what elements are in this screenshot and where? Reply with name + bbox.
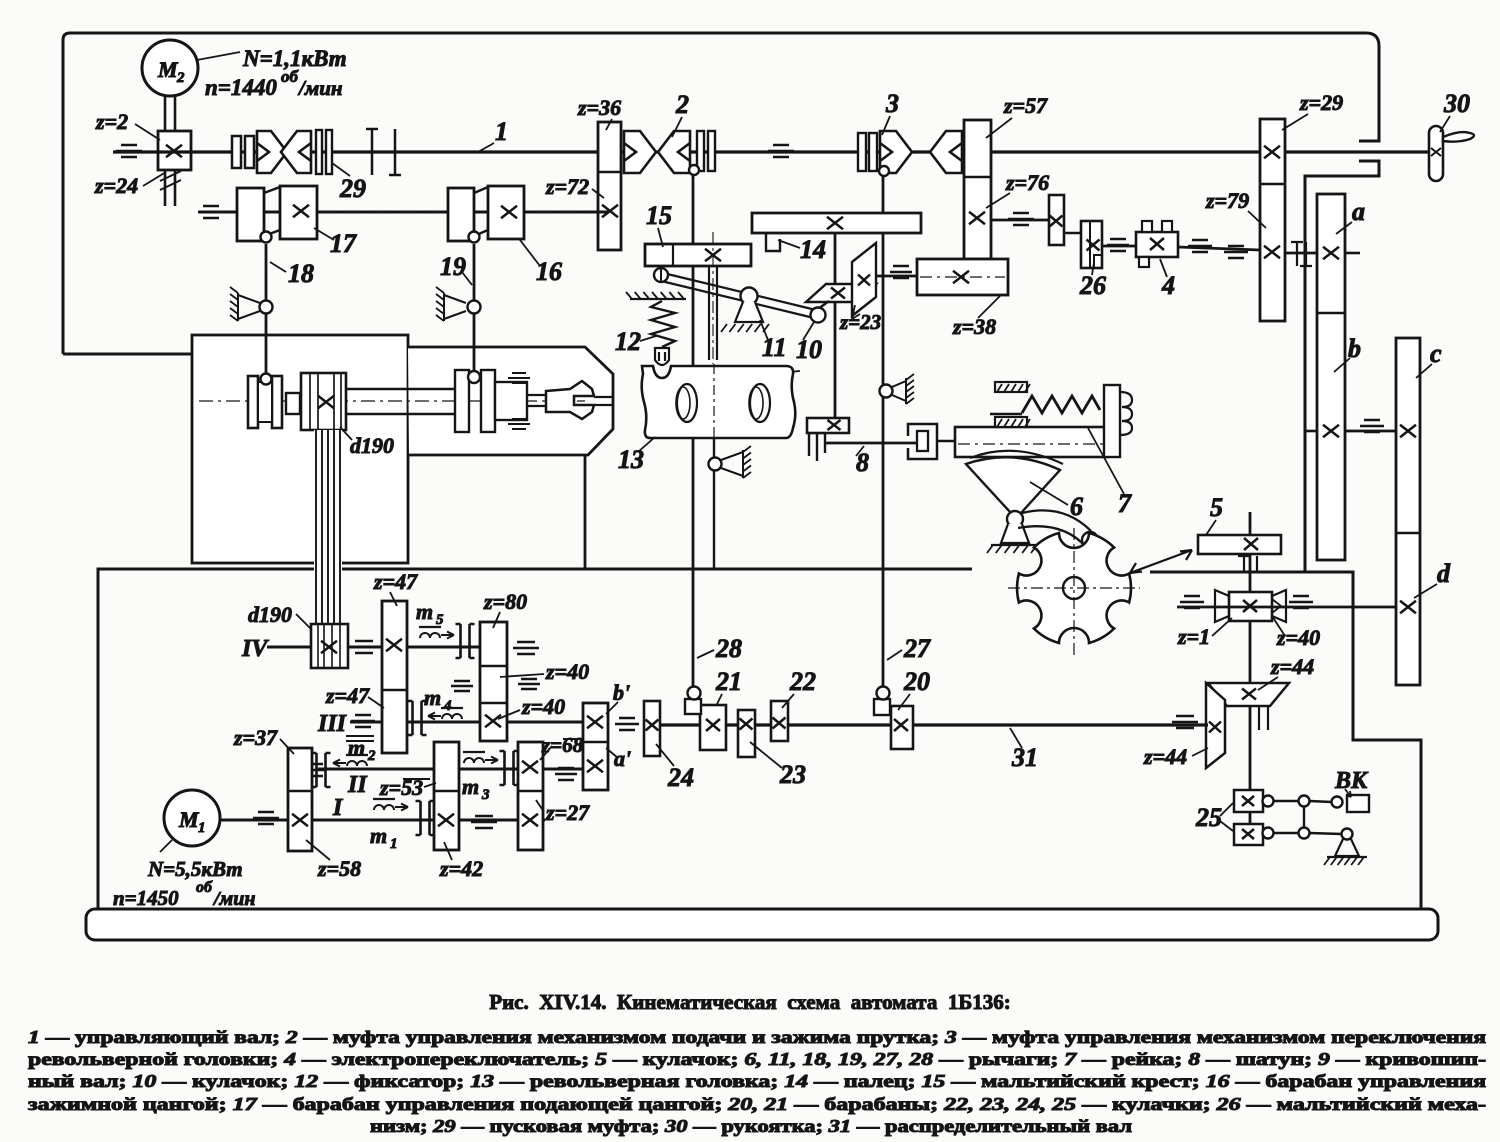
svg-text:m: m xyxy=(348,735,365,760)
fixator 12 hatched support xyxy=(630,298,686,300)
svg-text:7: 7 xyxy=(1118,489,1132,518)
coupling z=79 to gear a xyxy=(1285,252,1317,255)
svg-text:z=37: z=37 xyxy=(233,725,278,750)
feed collet drum flanges xyxy=(248,376,258,428)
svg-text:1: 1 xyxy=(198,820,206,836)
svg-text:25: 25 xyxy=(1195,803,1222,832)
slider of crank mechanism xyxy=(908,424,937,459)
rack 7 end plate xyxy=(1104,385,1120,457)
drum 21 follower box xyxy=(685,699,701,714)
spindle headstock box xyxy=(192,335,408,563)
clamping collet body xyxy=(495,382,527,420)
lever 10 link stub xyxy=(818,301,829,309)
svg-text:z=40: z=40 xyxy=(521,694,565,719)
maltese mechanism 26 cross xyxy=(1081,221,1102,268)
electro switch 4 body xyxy=(1136,232,1178,257)
svg-text:z=79: z=79 xyxy=(1205,188,1249,213)
svg-text:z=36: z=36 xyxy=(577,95,621,120)
drum 20 follower box xyxy=(874,699,890,715)
gear block z=36 / z=72 xyxy=(598,122,621,250)
feeding collet drum 17 xyxy=(237,188,264,241)
svg-text:27: 27 xyxy=(903,634,931,663)
crank 9 pin xyxy=(809,433,817,461)
svg-text:z=76: z=76 xyxy=(1005,170,1049,195)
spring retainer curls xyxy=(1120,392,1132,435)
svg-text:26: 26 xyxy=(1079,271,1106,300)
gripper slot channel xyxy=(594,397,612,405)
cam 23 xyxy=(738,710,755,757)
svg-text:d: d xyxy=(1437,559,1451,588)
rack spring xyxy=(1022,396,1100,413)
svg-text:a: a xyxy=(1352,197,1365,226)
clutch m3 plates xyxy=(500,751,519,785)
drum z=38 xyxy=(917,259,1008,295)
svg-text:/мин: /мин xyxy=(212,888,255,910)
svg-text:z=2: z=2 xyxy=(95,109,128,134)
drum 20 xyxy=(891,706,913,749)
svg-text:17: 17 xyxy=(330,229,357,258)
shaft z=76 to gear 26 xyxy=(991,219,1048,222)
feed clutch 2 left half xyxy=(624,131,656,173)
svg-text:z=42: z=42 xyxy=(439,856,483,881)
clutch 2 coupling discs xyxy=(697,131,704,171)
camshaft housing step outline right xyxy=(1305,572,1421,909)
svg-text:2: 2 xyxy=(367,748,376,764)
feed clutch 2 right half xyxy=(658,131,690,173)
svg-text:Рис. XIV.14. Кинематическая: Рис. XIV.14. Кинематическая схема автома… xyxy=(489,990,1010,1014)
lever 18 pivot xyxy=(260,301,273,314)
svg-text:n=1440: n=1440 xyxy=(205,75,277,100)
leader M1 to label xyxy=(160,840,172,852)
svg-text:п=1450: п=1450 xyxy=(113,886,179,910)
double arrow wheel to cam 5 xyxy=(1130,550,1192,573)
crank 9 web xyxy=(807,418,849,433)
gear block z=53 / z=42 xyxy=(434,742,459,850)
motor M2 xyxy=(142,40,198,96)
gear block z=29 / z=79 xyxy=(1260,119,1285,321)
shaft II xyxy=(318,768,600,771)
gear block z=47 double xyxy=(382,601,407,753)
svg-text:низм; 29 — пусковая муфта; 3: низм; 29 — пусковая муфта; 30 — рукоятка… xyxy=(370,1116,1132,1136)
svg-text:N=5,5кВт: N=5,5кВт xyxy=(147,857,243,881)
svg-text:3: 3 xyxy=(481,787,490,803)
worm shaft lower stub with hatch xyxy=(165,170,175,206)
svg-text:10: 10 xyxy=(796,335,822,364)
svg-text:III: III xyxy=(317,711,348,737)
bevel gear z=44 top xyxy=(1208,683,1289,706)
svg-text:20: 20 xyxy=(903,667,930,696)
worm z=2 gearbox xyxy=(158,131,191,170)
svg-text:c: c xyxy=(1430,339,1442,368)
cams 25 upper xyxy=(1234,790,1263,812)
lever 11 link xyxy=(657,272,816,318)
clutch 2 shifter ring pin xyxy=(689,165,699,175)
camshaft 31 xyxy=(660,723,1208,726)
shaft 1 coupling bars after clutch 29 xyxy=(366,129,401,175)
svg-text:15: 15 xyxy=(646,201,672,230)
svg-text:М: М xyxy=(157,57,179,82)
svg-text:z=58: z=58 xyxy=(317,856,361,881)
svg-text:IV: IV xyxy=(241,636,269,662)
handle 30 grip xyxy=(1443,132,1474,142)
gear block c / d xyxy=(1396,338,1420,685)
collet control shaft xyxy=(198,211,608,214)
svg-text:3: 3 xyxy=(885,89,899,118)
lever 6 pivot support xyxy=(1001,524,1029,543)
svg-text:z=23: z=23 xyxy=(839,310,881,334)
svg-text:m: m xyxy=(462,774,479,799)
svg-text:28: 28 xyxy=(715,634,742,663)
drum 17 shifter pin xyxy=(261,232,272,243)
svg-text:ный вал; 10 — кулачок; 12 —: ный вал; 10 — кулачок; 12 — фиксатор; 13… xyxy=(28,1071,1486,1091)
drum 21 xyxy=(700,705,726,750)
shaft 1 axis dash-dot xyxy=(113,151,1434,153)
motor M2 shaft to worm z=2 xyxy=(165,96,175,131)
maltese cross wheel of turret index xyxy=(1017,533,1131,643)
lever 11 fulcrum xyxy=(741,288,758,305)
bevel gear z=44 left xyxy=(1206,683,1225,768)
shaft IV xyxy=(267,646,480,649)
turret head hole 1 xyxy=(677,384,697,422)
shaft b to c xyxy=(1305,430,1317,433)
collet head with gripper chevron xyxy=(546,381,594,419)
svg-text:30: 30 xyxy=(1443,89,1470,118)
svg-text:z=57: z=57 xyxy=(1003,93,1048,118)
cam 22 xyxy=(771,701,788,741)
turret head 13 body xyxy=(642,366,796,438)
maltese mechanism 26 link xyxy=(1064,232,1082,234)
coupling below bevel xyxy=(1259,706,1268,730)
shaft a stub xyxy=(1345,252,1360,255)
svg-text:z=1: z=1 xyxy=(1177,624,1210,649)
cams 25 lower xyxy=(1234,824,1263,845)
svg-text:z=24: z=24 xyxy=(94,173,138,198)
svg-text:m: m xyxy=(416,599,433,624)
svg-text:d190: d190 xyxy=(248,602,292,627)
machine outline left step to spindle box xyxy=(63,353,192,356)
svg-text:19: 19 xyxy=(440,252,466,281)
svg-text:z=29: z=29 xyxy=(1299,90,1343,115)
shaft from bevel z=23 to drum z=38 xyxy=(876,275,917,278)
turret clutch 3 chevron halves xyxy=(880,131,912,173)
camshaft vertical shaft xyxy=(1249,512,1252,845)
fixator 12 spring xyxy=(651,301,675,347)
svg-text:z=27: z=27 xyxy=(545,800,590,825)
svg-text:1: 1 xyxy=(495,117,508,146)
svg-text:a': a' xyxy=(614,746,631,771)
lever 6 pivot pin xyxy=(1007,511,1023,527)
svg-text:z=44: z=44 xyxy=(1143,744,1187,769)
leader line to M2 power label xyxy=(197,52,240,60)
flag pointer arrow xyxy=(852,305,860,319)
svg-text:4: 4 xyxy=(1161,271,1175,300)
turret slide support column xyxy=(584,455,587,570)
svg-text:11: 11 xyxy=(762,333,787,362)
collet neck xyxy=(527,395,546,406)
svg-text:z=40: z=40 xyxy=(545,659,589,684)
shifter pin of drum 17 rod xyxy=(261,374,272,385)
svg-text:z=47: z=47 xyxy=(373,569,418,594)
svg-text:22: 22 xyxy=(789,667,816,696)
belt pulley d190 on spindle xyxy=(301,373,346,430)
svg-text:z=68: z=68 xyxy=(541,733,584,757)
shaft 26 to switch 4 xyxy=(1102,245,1136,248)
coupling below cam 5 xyxy=(1238,556,1263,572)
svg-text:об: об xyxy=(281,67,300,86)
svg-text:ВК: ВК xyxy=(1334,768,1369,794)
worm shaft horizontal xyxy=(1177,606,1396,609)
shifter pin of drum 16 rod xyxy=(468,371,480,383)
spindle shaft body xyxy=(346,389,456,414)
svg-text:18: 18 xyxy=(288,259,314,288)
shaft 1 main line xyxy=(113,150,1434,153)
shaft III xyxy=(350,721,585,724)
svg-text:16: 16 xyxy=(536,257,562,286)
linkage vertical link xyxy=(1303,806,1305,828)
svg-text:1 — управляющий вал; 2 — муфт: 1 — управляющий вал; 2 — муфта управлени… xyxy=(28,1027,1486,1047)
svg-text:2: 2 xyxy=(675,90,689,119)
finger 14 bar xyxy=(752,213,921,233)
maltese wheel hub xyxy=(1063,577,1085,599)
bearing on shaft 1 middle xyxy=(768,145,794,157)
maltese mechanism 26 driver xyxy=(1049,195,1064,245)
turret slide housing hexagon xyxy=(408,347,613,455)
svg-text:М: М xyxy=(178,807,200,832)
lever 19 pivot xyxy=(468,301,481,314)
svg-text:5: 5 xyxy=(1210,493,1223,522)
switch 4 contacts top xyxy=(1142,221,1152,232)
svg-text:зажимной цангой; 17 — барабан: зажимной цангой; 17 — барабан управления… xyxy=(28,1094,1486,1114)
bevel flag z=23 vertical xyxy=(852,243,876,316)
clamping collet drum 16 xyxy=(448,188,474,241)
shaft I xyxy=(220,819,545,822)
svg-text:23: 23 xyxy=(779,760,806,789)
turret head hole 2 xyxy=(750,384,770,422)
maltese cross 15 bar xyxy=(645,244,751,266)
svg-text:5: 5 xyxy=(436,612,444,628)
curved arm with roller xyxy=(1018,510,1091,547)
slider to rack link xyxy=(937,440,955,443)
lever 11 left pin xyxy=(654,268,668,282)
svg-text:револьверной головки; 4 — эле: револьверной головки; 4 — электропереклю… xyxy=(28,1049,1486,1069)
pivot of rod 27 xyxy=(880,385,893,398)
svg-text:m: m xyxy=(424,685,441,710)
sector lever 6 xyxy=(966,457,1060,513)
rod 28 from clutch 2 down to drum 21 xyxy=(692,175,695,689)
rod 27 from clutch 3 down to drum 20 xyxy=(882,176,885,688)
bearing left end of shaft 1 xyxy=(116,145,142,157)
bearing left end of collet shaft xyxy=(198,206,224,218)
svg-text:14: 14 xyxy=(800,235,826,264)
svg-text:z=80: z=80 xyxy=(483,589,527,614)
svg-text:29: 29 xyxy=(339,174,366,203)
spring abutment hatched bottom xyxy=(995,417,1027,427)
spindle spacer block xyxy=(286,393,300,414)
limit switch BK box xyxy=(1347,795,1369,812)
svg-text:24: 24 xyxy=(667,763,694,792)
belt from spindle to shaft IV xyxy=(314,430,342,624)
leader z=53 xyxy=(424,783,436,787)
svg-text:21: 21 xyxy=(715,667,742,696)
svg-text:/мин: /мин xyxy=(297,76,343,100)
gear block z=57 / z=76 xyxy=(964,120,991,259)
svg-text:об: об xyxy=(196,879,213,896)
connecting rod 8 xyxy=(825,442,918,445)
maltese wheel center lines xyxy=(1008,587,1140,589)
lever rod 18 xyxy=(265,244,268,374)
feed gearbox outline left wall xyxy=(98,569,972,909)
svg-text:b': b' xyxy=(613,680,630,705)
turret center line xyxy=(713,364,715,452)
svg-text:z=44: z=44 xyxy=(1270,654,1314,679)
cam 5 xyxy=(1198,535,1281,554)
worm z=1 box xyxy=(1229,592,1272,621)
clutch m1 plates xyxy=(416,801,435,835)
feed gearbox outline top right segment xyxy=(1150,571,1305,574)
machine base plinth xyxy=(86,909,1438,940)
svg-text:4: 4 xyxy=(443,698,452,714)
pulley d190 on shaft IV xyxy=(311,624,348,668)
svg-text:z=47: z=47 xyxy=(325,683,370,708)
gear block z=80 / z=40 / z=40 xyxy=(480,622,507,741)
svg-text:II: II xyxy=(347,772,368,798)
gear 24 on camshaft xyxy=(644,701,660,756)
svg-text:2: 2 xyxy=(176,70,185,86)
spindle right bearing discs xyxy=(455,370,469,432)
turret clutch 3 plates xyxy=(858,133,866,171)
clutch 3 shifter pin xyxy=(879,166,889,176)
svg-text:z=40: z=40 xyxy=(1276,625,1320,650)
crank rod 9 vertical xyxy=(834,233,837,420)
drum 16 shifter pin xyxy=(469,232,480,243)
starting clutch 29 chevron halves xyxy=(257,131,287,173)
clutch 29 coupling discs xyxy=(316,130,322,174)
clutch m5 plates xyxy=(456,624,475,658)
feed collet drum sleeve xyxy=(258,382,272,422)
svg-text:31: 31 xyxy=(1011,743,1038,772)
starting clutch 29 pulley discs xyxy=(232,136,241,168)
gear block a / b xyxy=(1317,194,1345,560)
spring abutment hatched top xyxy=(995,382,1027,392)
svg-text:d190: d190 xyxy=(350,433,394,458)
gear block z=37 / z=58 xyxy=(288,748,312,851)
clutch m4 plates xyxy=(408,701,427,735)
switch linkage upper row xyxy=(1263,796,1274,807)
switch linkage lower row xyxy=(1263,828,1274,839)
shaft 4 to gear z=79 xyxy=(1178,247,1260,250)
bevel flag z=23 horizontal xyxy=(806,284,876,302)
linkage pivot support xyxy=(1335,839,1359,856)
turret index shaft xyxy=(709,266,717,360)
clutch m2 plates xyxy=(312,753,331,787)
svg-text:12: 12 xyxy=(615,327,641,356)
svg-text:m: m xyxy=(370,823,387,848)
svg-text:z=72: z=72 xyxy=(545,174,589,199)
spindle axis xyxy=(199,400,585,402)
gear block b-prime / a-prime xyxy=(583,703,608,790)
connecting rod 8 end cap xyxy=(824,433,826,453)
rack 7 xyxy=(955,427,1108,457)
gear block z=68 / z=27 xyxy=(518,742,543,850)
svg-text:z=38: z=38 xyxy=(952,314,996,339)
turret shaft lower with pivot xyxy=(713,438,715,570)
handle 30 hub xyxy=(1429,126,1443,181)
clutch m2 coil xyxy=(346,754,368,756)
machine body outline top and right xyxy=(63,33,1379,572)
fixator 12 plug xyxy=(655,348,669,365)
svg-text:1: 1 xyxy=(390,836,398,852)
worm bevel flags xyxy=(1215,590,1286,622)
finger 14 hook xyxy=(766,233,780,251)
roller pin xyxy=(1082,532,1098,548)
motor M1 xyxy=(164,790,220,846)
switch 4 contact bottom xyxy=(1139,257,1149,267)
lever rod 19 xyxy=(473,244,476,372)
svg-text:I: I xyxy=(332,795,344,821)
lever 10 pin xyxy=(811,308,826,323)
